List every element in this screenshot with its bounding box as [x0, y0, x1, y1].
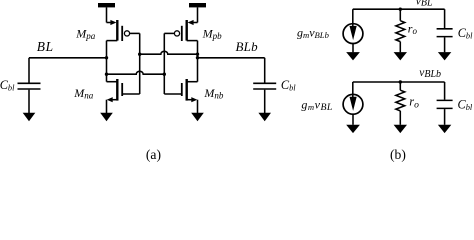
- svg-text:(b): (b): [390, 147, 406, 163]
- svg-text:(a): (a): [146, 147, 161, 163]
- svg-text:vBLb: vBLb: [419, 67, 441, 80]
- svg-text:BL: BL: [37, 39, 54, 54]
- svg-text:vBL: vBL: [416, 0, 433, 9]
- svg-text:BLb: BLb: [236, 39, 259, 54]
